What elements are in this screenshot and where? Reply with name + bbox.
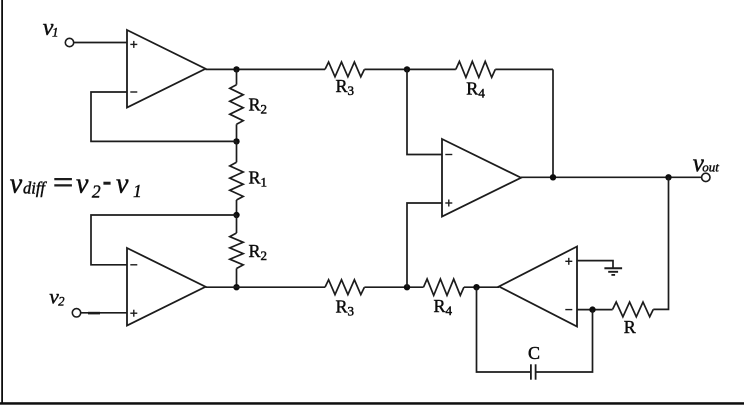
- ground: [604, 268, 622, 275]
- wire R2 lower to U2 output node: [236, 269, 238, 288]
- wire v2 tick: [88, 312, 100, 315]
- node H junction (R4-U4 output-C): [473, 284, 479, 290]
- wire R3 to node A: [364, 68, 455, 70]
- node F junction (U3 output): [550, 174, 556, 180]
- wire U1 feedback: [91, 92, 237, 141]
- op-amp U2: [127, 248, 206, 326]
- svg-text:R4: R4: [434, 296, 453, 318]
- wire U3 output to vout: [521, 176, 702, 178]
- node A junction (R3-R4-U3 inverting): [404, 66, 410, 72]
- resistor R3 (bottom): [325, 280, 364, 319]
- svg-text:R2: R2: [249, 241, 268, 263]
- resistor R4 (top): [456, 61, 496, 100]
- resistor R2 (upper): [230, 85, 267, 125]
- op-amp U1: [127, 30, 206, 108]
- svg-text:2: 2: [58, 294, 64, 308]
- resistor R4 (bottom): [424, 279, 464, 318]
- node B junction (R2-R1-U1 feedback): [233, 138, 239, 144]
- terminal v1: [65, 38, 73, 46]
- wire U2 output: [206, 286, 326, 288]
- op-amp U4: [499, 247, 577, 327]
- wire node H down to capacitor: [477, 287, 531, 372]
- wire node to R2 top: [236, 69, 238, 84]
- svg-text:R2: R2: [249, 95, 268, 117]
- resistor R3 (top): [325, 62, 364, 98]
- wire node B to R1: [236, 141, 238, 162]
- node I junction (U4 inverting): [589, 306, 595, 312]
- wire R4 to U3 output node: [495, 69, 553, 177]
- svg-text:v: v: [10, 169, 23, 200]
- svg-text:R3: R3: [336, 76, 355, 98]
- svg-text:2: 2: [92, 181, 101, 201]
- svg-text:v: v: [116, 169, 129, 200]
- svg-text:R: R: [624, 317, 636, 337]
- capacitor C: [528, 343, 540, 380]
- resistor R2 (lower): [230, 233, 267, 269]
- wire U1 output: [206, 68, 326, 70]
- terminal v2: [72, 309, 80, 317]
- label vdiff equation: [10, 169, 142, 202]
- border frame bottom edge: [0, 402, 744, 405]
- wire U4 noninverting to ground: [577, 261, 613, 269]
- wire R1 to node C: [236, 200, 238, 215]
- wire R4 to node H: [464, 286, 499, 288]
- wire node A to U3 inverting input: [407, 69, 442, 154]
- wire R to vout branch: [653, 177, 668, 309]
- wire v1 to U1 +: [74, 42, 127, 44]
- svg-text:C: C: [528, 343, 540, 363]
- wire node E to U3 noninverting input: [407, 203, 442, 287]
- svg-text:R4: R4: [466, 79, 485, 101]
- node E junction (R3-R4-U3 noninverting): [404, 284, 410, 290]
- border frame left edge: [1, 0, 3, 404]
- svg-text:1: 1: [52, 24, 59, 39]
- resistor R: [613, 302, 654, 337]
- svg-text:1: 1: [133, 181, 142, 201]
- wire node C to R2 lower: [236, 215, 238, 233]
- op-amp U3: [442, 139, 521, 217]
- svg-text:R3: R3: [336, 297, 355, 319]
- node G junction (vout branch): [665, 174, 671, 180]
- node U1 output junction: [233, 66, 239, 72]
- node C junction (R1-R2-U2 feedback): [233, 212, 239, 218]
- terminal vout: [702, 173, 710, 181]
- wire R3 to node E: [364, 286, 423, 288]
- wire capacitor to node I: [536, 310, 593, 372]
- node D junction (U2 output): [233, 284, 239, 290]
- resistor R1: [230, 162, 267, 200]
- svg-text:R1: R1: [249, 168, 268, 190]
- svg-text:v: v: [76, 169, 89, 200]
- wire U4 inverting input: [577, 309, 613, 311]
- wire U2 feedback: [91, 215, 237, 265]
- svg-text:out: out: [702, 160, 719, 175]
- wire R2 to node B: [236, 124, 238, 141]
- wire v2 to U2 +: [81, 312, 127, 314]
- svg-text:diff: diff: [23, 179, 47, 198]
